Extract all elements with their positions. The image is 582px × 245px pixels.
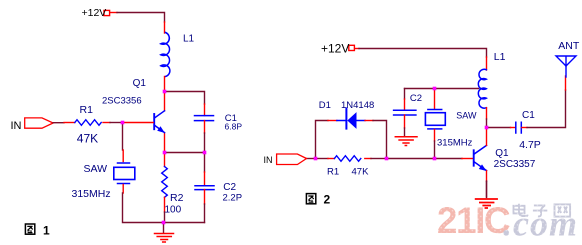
svg-text:L1: L1 [494,51,506,63]
svg-text:C1: C1 [522,110,535,121]
svg-text:2SC3357: 2SC3357 [494,159,536,170]
svg-text:2.2P: 2.2P [223,192,243,203]
svg-text:2: 2 [324,193,331,207]
svg-text:47K: 47K [77,132,98,146]
svg-text:R2: R2 [170,192,184,204]
svg-text:R1: R1 [327,167,339,178]
svg-text:C2: C2 [223,182,236,193]
svg-text:4.7P: 4.7P [519,139,541,151]
svg-text:1N4148: 1N4148 [341,100,374,111]
svg-text:SAW: SAW [456,111,477,121]
svg-text:+12V: +12V [82,7,107,19]
svg-text:C2: C2 [410,93,422,104]
svg-text:Q1: Q1 [495,148,509,159]
svg-text:1: 1 [43,224,50,238]
svg-text:ANT: ANT [558,40,580,52]
svg-text:100: 100 [165,205,182,216]
svg-text:315MHz: 315MHz [437,138,473,149]
svg-text:R1: R1 [80,104,94,116]
svg-text:IN: IN [264,155,273,165]
svg-text:L1: L1 [183,33,195,44]
svg-text:SAW: SAW [84,163,108,175]
svg-text:2SC3356: 2SC3356 [102,95,142,106]
svg-text:Q1: Q1 [133,78,147,89]
svg-text:+12V: +12V [321,41,349,55]
svg-text:47K: 47K [352,167,370,178]
svg-text:315MHz: 315MHz [72,188,111,200]
svg-text:IN: IN [11,120,22,132]
svg-text:6.8P: 6.8P [225,121,243,131]
svg-text:D1: D1 [319,100,331,111]
